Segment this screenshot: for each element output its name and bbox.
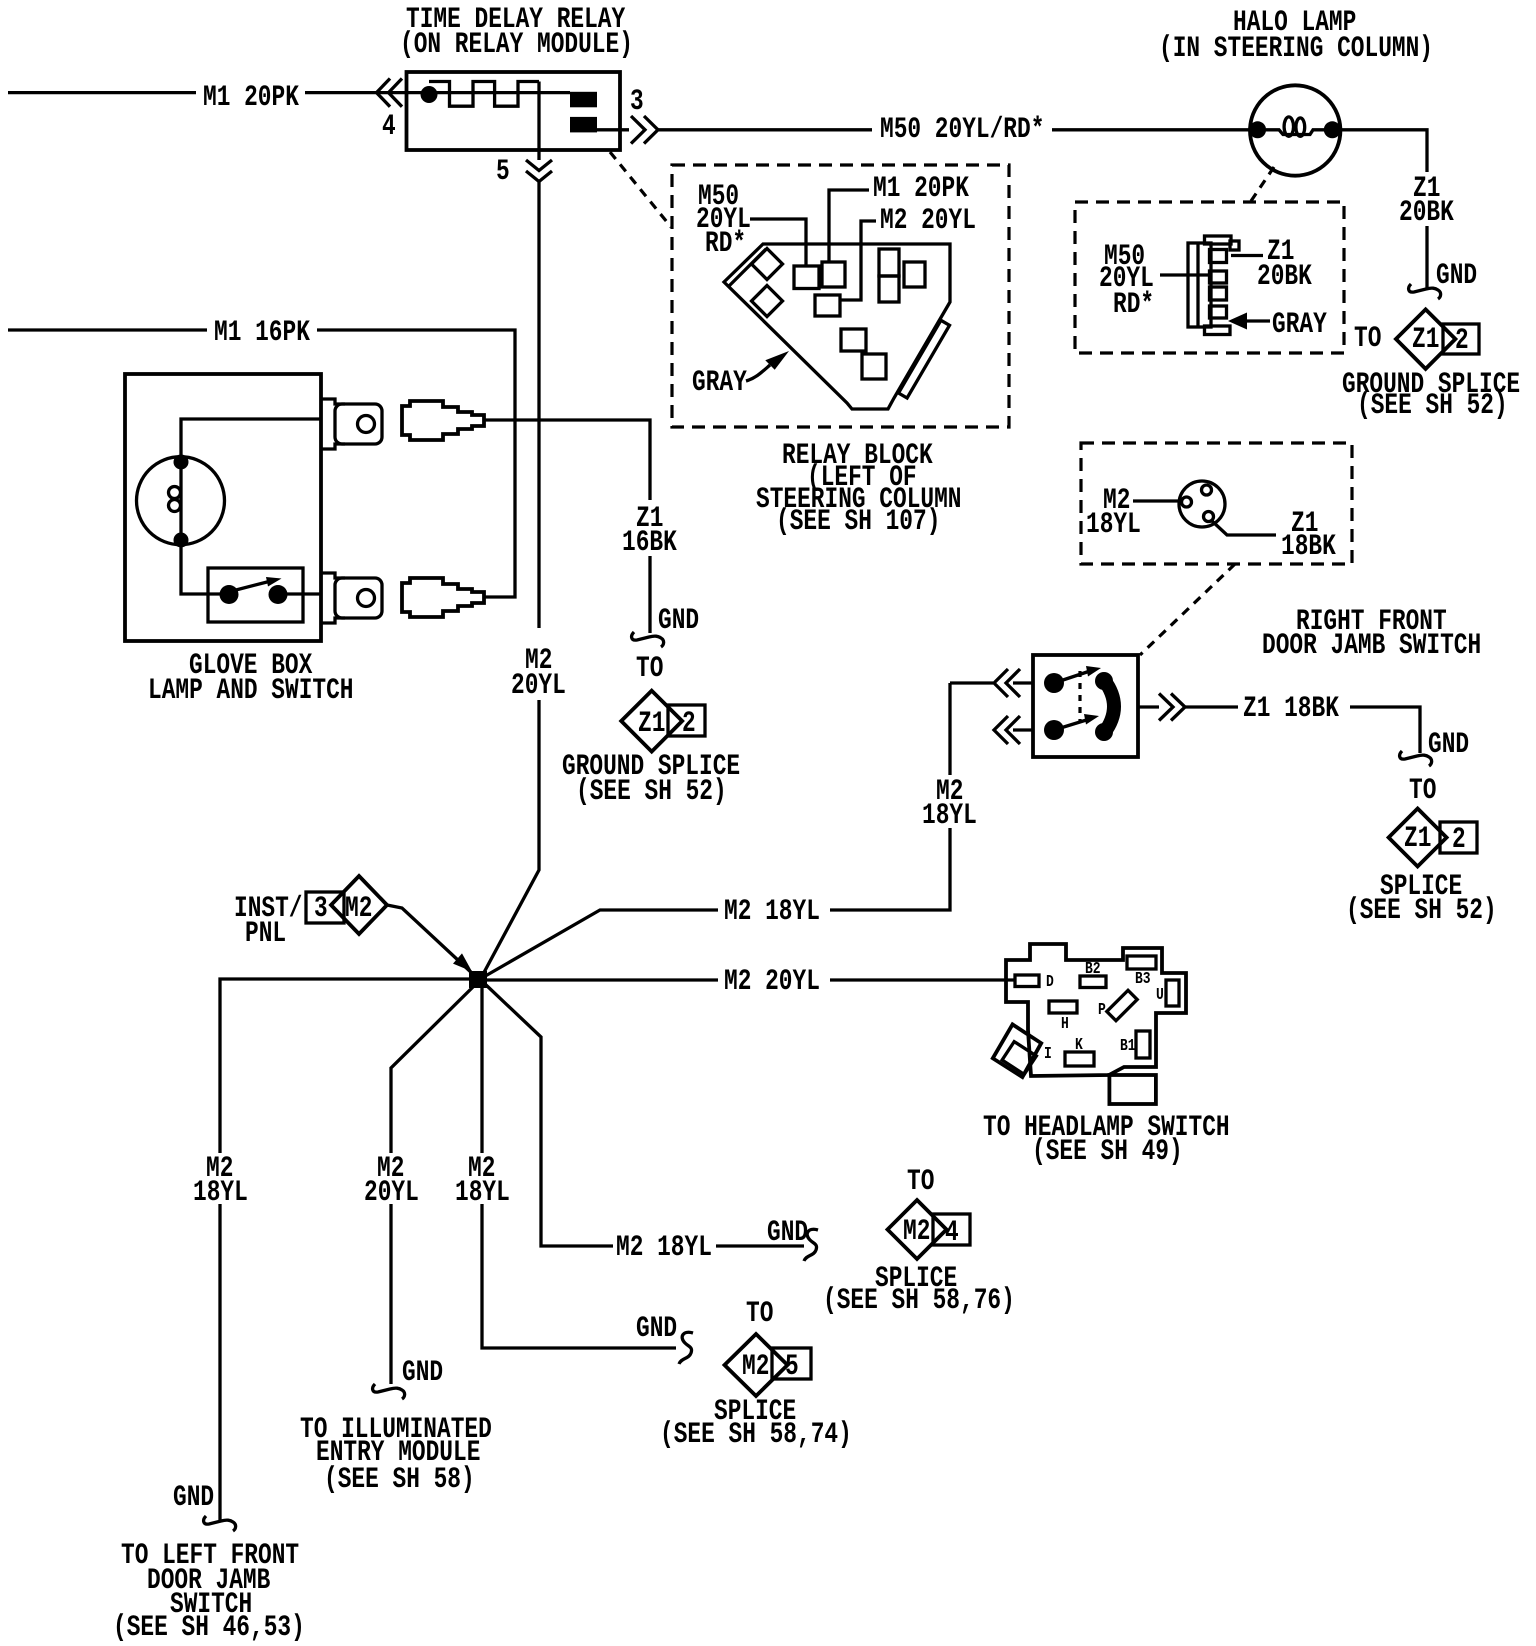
headlamp connector cavity I [1002,1042,1052,1075]
ground symbol (left front door jamb) [173,1481,236,1531]
connector 3 box (inst panel) [306,892,344,926]
INST/PNL label [234,892,303,951]
time delay relay K1 box [407,72,621,150]
svg-text:GRAY: GRAY [1272,308,1327,342]
svg-text:20YL: 20YL [511,669,566,703]
ground symbol (door jamb) [1400,728,1470,766]
svg-text:(SEE SH 58): (SEE SH 58) [324,1463,475,1497]
wire M2 20YL from relay pin 5 down to junction [481,82,566,979]
glove box bottom male terminal [322,573,382,623]
svg-text:(SEE SH 46,53): (SEE SH 46,53) [113,1611,305,1645]
svg-text:M2 20YL: M2 20YL [724,965,820,999]
relay block rotated cavity 1 [752,249,783,280]
svg-text:M1 20PK: M1 20PK [873,172,969,206]
svg-text:TO: TO [636,652,663,686]
relay block cavities [794,249,925,379]
halo lamp terminal dots [1249,121,1341,138]
svg-text:K: K [1075,1035,1083,1054]
svg-text:RD*: RD* [705,227,746,261]
wire M2 20YL right branch to headlamp switch [486,965,1016,999]
headlamp connector cavity B2 [1080,959,1106,988]
connector chevrons on pin 3 output [631,116,658,144]
splice Z1-2 symbol (door jamb) [1346,774,1497,928]
relay coil (square wave) [429,82,539,107]
svg-text:LAMP AND SWITCH: LAMP AND SWITCH [148,674,354,708]
svg-text:2: 2 [1455,324,1469,358]
wire into M50 connector [1160,273,1209,276]
splice M2-4 symbol [823,1165,1015,1318]
headlamp connector cavity B3 [1127,956,1156,988]
relay block connector outline [724,244,950,409]
svg-text:M2: M2 [742,1350,769,1384]
svg-text:DOOR JAMB SWITCH: DOOR JAMB SWITCH [1262,629,1481,663]
junction splice node [469,971,487,988]
relay title label [400,3,633,62]
svg-text:B1: B1 [1120,1036,1136,1055]
headlamp switch caption [983,1111,1230,1169]
svg-text:5: 5 [785,1350,799,1384]
svg-text:3: 3 [630,85,644,119]
wire M1 20PK [8,81,570,115]
round connector (detail) [1179,481,1225,527]
glove box switch box [208,568,303,622]
wire M50 20YL/RD* from relay pin 3 [597,113,1250,147]
svg-text:PNL: PNL [245,917,286,951]
headlamp connector cavity P [1098,990,1137,1020]
svg-text:3: 3 [314,892,328,926]
svg-text:GND: GND [658,604,699,638]
door jamb switch title [1262,605,1481,663]
svg-text:B2: B2 [1085,959,1101,978]
svg-text:TO: TO [907,1165,934,1199]
svg-text:TO: TO [746,1297,773,1331]
headlamp switch connector outline [1006,944,1186,1076]
wire M2 20YL down-left branch [364,983,477,1384]
caption illuminated entry module [300,1413,492,1497]
svg-text:(SEE SH 52): (SEE SH 52) [576,775,727,809]
wire M2 18YL down-right branch [485,984,804,1265]
ground symbol (glove box) [632,604,700,647]
svg-text:Z1: Z1 [1404,822,1431,856]
wire lamp to switch [181,540,220,594]
svg-text:M2 18YL: M2 18YL [616,1231,712,1265]
label M50 20YL RD* (detail) [1099,240,1154,322]
svg-text:P: P [1098,1000,1106,1019]
glove box bottom female connector [402,578,484,617]
door jamb switch plunger [1104,680,1114,733]
svg-text:Z1: Z1 [638,707,665,741]
ground symbol (halo lamp) [1409,259,1478,299]
dashed leader from relay to relay block detail [610,152,671,227]
headlamp connector bottom tab [1109,1075,1156,1104]
wire M2 18YL straight down branch [455,988,676,1348]
svg-text:4: 4 [945,1216,959,1250]
relay block rotated cavity 2 [752,286,783,317]
relay block keyway slot [899,320,950,398]
wire M2 18YL vertical to junction [481,683,977,979]
wire lamp to top terminal [181,419,322,462]
svg-text:TO: TO [1354,322,1381,356]
svg-text:20BK: 20BK [1257,260,1312,294]
svg-text:20BK: 20BK [1399,196,1454,230]
halo lamp bulb circle [1250,85,1340,175]
splice M2-5 symbol [660,1297,852,1452]
svg-text:I: I [1044,1044,1052,1063]
svg-text:M2 20YL: M2 20YL [880,204,976,238]
halo lamp filament [1266,117,1324,136]
svg-text:D: D [1046,972,1054,991]
svg-text:(SEE SH 52): (SEE SH 52) [1346,894,1497,928]
connector chevrons on M1 20PK input [377,79,403,107]
svg-text:Z1 18BK: Z1 18BK [1243,692,1339,726]
door jamb switch contacts [1044,673,1064,740]
wire Z1 18BK from round connector [1212,507,1336,564]
svg-text:(SEE SH 58,74): (SEE SH 58,74) [660,1418,852,1452]
svg-text:M1 20PK: M1 20PK [203,81,299,115]
svg-text:(ON RELAY MODULE): (ON RELAY MODULE) [400,28,633,62]
wire Z1 16BK from glove box lamp [484,420,677,633]
dashed leader from halo lamp to connector detail [1251,167,1274,201]
GRAY arrow (detail) [1228,308,1327,342]
wire Z1 18BK from door jamb switch [1138,692,1420,753]
svg-text:GND: GND [636,1312,677,1346]
wire into round connector [1133,499,1181,502]
svg-text:GND: GND [402,1356,443,1390]
svg-text:M2: M2 [345,892,372,926]
svg-text:(SEE SH 52): (SEE SH 52) [1357,389,1508,423]
dashed leader from detail box to door jamb switch [1140,564,1235,655]
ground symbol (illuminated entry) [373,1356,444,1399]
wire M50 20YL to cavity [750,219,806,266]
label M50 20YL RD* (relay block) [696,180,751,261]
svg-text:(SEE SH 58,76): (SEE SH 58,76) [823,1284,1015,1318]
wire inst panel to junction with arrow [387,905,474,975]
glove box caption [148,649,354,708]
svg-text:Z1: Z1 [1412,323,1439,357]
M50 connector body (detail) [1188,236,1239,335]
svg-text:GND: GND [1428,728,1469,762]
glove box top male terminal [322,399,382,449]
door jamb switch box [1033,655,1138,757]
glove box lamp filament [169,469,182,533]
wire Z1 20BK from connector (detail) [1231,235,1312,294]
label M2 18YL (connector detail) [1086,484,1141,542]
svg-text:GND: GND [173,1481,214,1515]
wire M2 20YL to cavity [841,221,876,300]
glove box switch contacts and lever [220,577,288,604]
svg-text:(SEE SH 49): (SEE SH 49) [1032,1135,1183,1169]
relay block detail dashed box [672,165,1009,427]
wire M2 18YL into door jamb switch [950,681,1033,684]
svg-text:(IN STEERING COLUMN): (IN STEERING COLUMN) [1159,32,1433,66]
relay contact pads (filled) [570,92,597,133]
svg-text:(SEE SH 107): (SEE SH 107) [776,505,940,539]
glove box lamp circle [137,457,225,545]
headlamp connector cavity D [1015,972,1054,991]
svg-text:5: 5 [496,155,510,189]
headlamp connector cavity B1 [1120,1031,1150,1058]
svg-text:2: 2 [682,707,696,741]
wire M1 20PK to cavity [829,190,869,262]
connector M2 diamond (inst panel) [331,876,387,934]
wire M1 16PK [8,316,515,597]
headlamp connector cavity K [1065,1035,1094,1066]
svg-text:M1 16PK: M1 16PK [214,316,310,350]
glove box outline [125,374,321,641]
headlamp connector cavity H [1049,1001,1077,1033]
svg-text:H: H [1061,1014,1069,1033]
svg-text:GND: GND [767,1216,808,1250]
caption left front door jamb switch [113,1539,305,1645]
M50 connector detail dashed box [1075,202,1344,353]
connector chevrons (bottom left of switch) [994,716,1020,744]
svg-text:B3: B3 [1135,969,1151,988]
svg-text:18YL: 18YL [193,1176,248,1210]
svg-text:M2 18YL: M2 18YL [724,895,820,929]
headlamp connector rotated holder [993,1024,1041,1077]
halo lamp title [1159,6,1433,66]
relay block caption [756,439,962,539]
stub wire into switch (bottom) [1013,728,1033,731]
svg-text:U: U [1156,985,1164,1004]
door jamb switch levers [1054,666,1101,730]
relay coil terminal dot [421,86,438,103]
svg-text:M2: M2 [903,1215,930,1249]
svg-text:18YL: 18YL [455,1176,510,1210]
svg-text:RD*: RD* [1113,288,1154,322]
svg-text:2: 2 [1452,823,1466,857]
wire switch to bottom terminal [286,592,322,595]
connector chevrons on pin 5 wire (pointing down) [526,160,552,182]
svg-text:4: 4 [382,110,396,144]
connector chevrons on Z1 18BK [1159,694,1185,721]
svg-text:16BK: 16BK [622,526,677,560]
svg-text:20YL: 20YL [364,1176,419,1210]
headlamp connector cavity U [1156,980,1179,1006]
svg-text:GRAY: GRAY [692,366,747,400]
svg-text:GND: GND [1436,259,1477,293]
svg-text:18YL: 18YL [1086,508,1141,542]
wire Z1 20BK from halo lamp [1341,130,1454,288]
M2/Z1 connector detail dashed box [1081,443,1352,564]
ground splice Z1-2 symbol (halo) [1342,309,1520,423]
connector chevrons (top left of switch) [994,669,1020,697]
ground symbol (M2-4 splice wire) [767,1216,818,1261]
svg-text:TO: TO [1409,774,1436,808]
door jamb switch dashed centerline [1078,671,1081,723]
svg-text:18BK: 18BK [1281,530,1336,564]
wire M2 18YL left branch [193,979,472,1522]
ground splice Z1-2 symbol (glove box) [562,652,740,809]
svg-text:18YL: 18YL [922,799,977,833]
GRAY arrow (relay block) [692,351,789,400]
glove box lamp terminal dots [174,455,189,548]
glove box top female connector [402,401,484,440]
ground symbol (M2-5 splice wire) [636,1312,693,1364]
svg-text:M50 20YL/RD*: M50 20YL/RD* [880,113,1044,147]
